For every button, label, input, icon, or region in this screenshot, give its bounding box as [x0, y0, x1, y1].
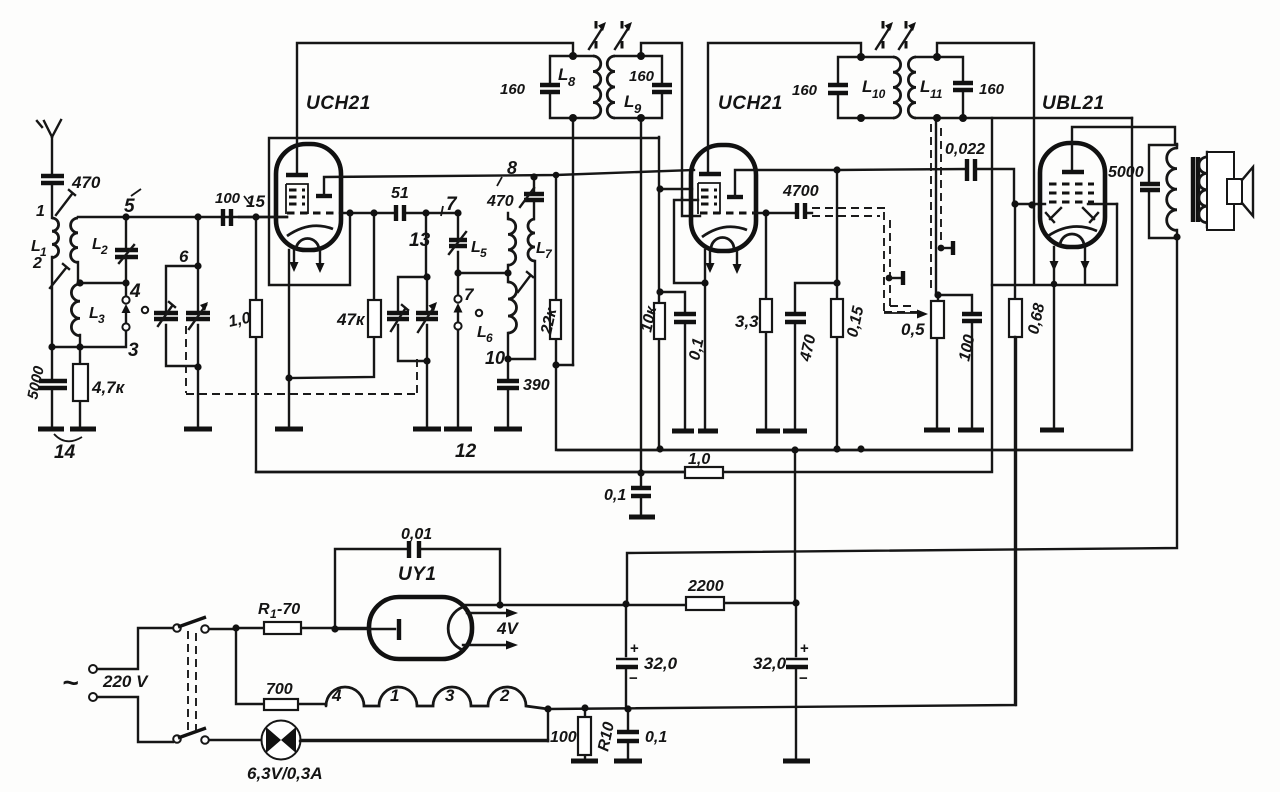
svg-text:0,01: 0,01 [401, 526, 432, 543]
svg-text:2: 2 [100, 243, 108, 257]
svg-text:7: 7 [464, 285, 475, 304]
svg-text:700: 700 [266, 681, 293, 698]
svg-text:0,5: 0,5 [901, 320, 925, 339]
svg-text:UBL21: UBL21 [1042, 93, 1105, 114]
svg-text:UCH21: UCH21 [718, 93, 783, 114]
svg-text:1: 1 [390, 686, 399, 705]
svg-text:10: 10 [485, 348, 505, 368]
svg-text:100: 100 [215, 190, 241, 207]
svg-text:11: 11 [930, 87, 943, 101]
svg-text:−: − [629, 670, 638, 687]
svg-text:47к: 47к [336, 310, 366, 329]
svg-text:2200: 2200 [687, 578, 724, 595]
svg-text:12: 12 [455, 441, 477, 462]
svg-text:L: L [862, 77, 872, 96]
svg-text:470: 470 [486, 193, 514, 210]
svg-text:8: 8 [507, 158, 517, 178]
svg-text:160: 160 [629, 68, 655, 85]
svg-text:3,3: 3,3 [735, 312, 759, 331]
svg-text:-70: -70 [277, 601, 300, 618]
svg-text:32,0: 32,0 [753, 654, 787, 673]
svg-text:8: 8 [568, 74, 576, 89]
svg-text:0,1: 0,1 [645, 729, 667, 746]
svg-text:6: 6 [179, 247, 189, 266]
svg-text:~: ~ [62, 667, 78, 698]
svg-text:3: 3 [128, 340, 139, 361]
svg-text:1: 1 [36, 203, 45, 220]
svg-text:4: 4 [331, 686, 342, 705]
svg-text:1: 1 [270, 607, 277, 621]
svg-text:14: 14 [54, 442, 76, 463]
svg-text:220 V: 220 V [102, 672, 149, 691]
svg-text:5: 5 [480, 246, 487, 260]
svg-text:10: 10 [872, 87, 886, 101]
svg-text:100: 100 [550, 729, 577, 746]
svg-text:160: 160 [979, 81, 1005, 98]
svg-text:L: L [624, 92, 634, 111]
svg-text:0,1: 0,1 [604, 487, 626, 504]
svg-text:R: R [258, 601, 270, 618]
svg-text:+: + [800, 640, 809, 657]
svg-text:3: 3 [445, 686, 455, 705]
svg-text:0,022: 0,022 [945, 141, 985, 158]
svg-text:160: 160 [500, 81, 526, 98]
svg-text:UCH21: UCH21 [306, 93, 371, 114]
svg-text:9: 9 [634, 101, 642, 116]
svg-text:4700: 4700 [782, 183, 819, 200]
svg-text:L: L [920, 77, 930, 96]
svg-text:UY1: UY1 [398, 564, 436, 585]
svg-text:13: 13 [409, 230, 431, 251]
svg-text:4: 4 [129, 281, 141, 302]
svg-text:32,0: 32,0 [644, 654, 678, 673]
svg-text:2: 2 [499, 686, 510, 705]
svg-text:−: − [799, 670, 808, 687]
svg-text:1,0: 1,0 [688, 451, 710, 468]
svg-text:160: 160 [792, 82, 818, 99]
svg-text:L: L [558, 65, 568, 84]
svg-text:390: 390 [523, 377, 550, 394]
svg-text:+: + [630, 640, 639, 657]
svg-text:4,7к: 4,7к [91, 378, 126, 397]
svg-text:5000: 5000 [1108, 164, 1144, 181]
svg-text:2: 2 [32, 255, 42, 272]
svg-text:51: 51 [391, 185, 409, 202]
svg-text:4V: 4V [496, 619, 519, 638]
svg-text:6,3V/0,3A: 6,3V/0,3A [247, 764, 323, 783]
svg-text:3: 3 [98, 312, 105, 326]
svg-text:6: 6 [486, 331, 493, 345]
svg-text:470: 470 [71, 173, 101, 192]
